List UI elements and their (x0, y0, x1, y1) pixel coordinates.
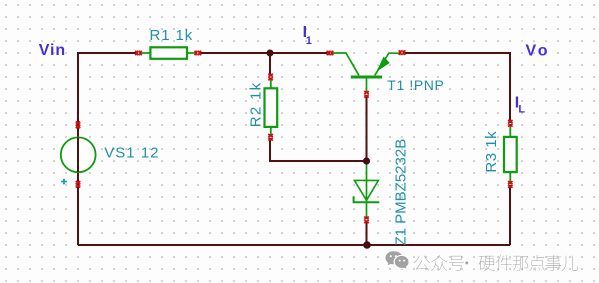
watermark text 公众号·硬件那点事儿 (414, 255, 578, 271)
svg-text:R2 1k: R2 1k (247, 82, 264, 128)
wire: bottom rail (78, 244, 510, 246)
resistor R3 (504, 124, 517, 184)
svg-text:R1 1k: R1 1k (150, 27, 194, 44)
wire: R3 bottom pin down to bottom rail (509, 185, 511, 245)
pin VS1 - (76, 181, 81, 187)
svg-text:Z1 PMBZ5232B: Z1 PMBZ5232B (392, 139, 409, 246)
svg-text:VS1 12: VS1 12 (104, 144, 159, 161)
label I1 current (303, 24, 312, 47)
pin R1.2 (195, 51, 201, 56)
voltage source VS1 (61, 137, 96, 172)
svg-text:1: 1 (306, 35, 312, 47)
wire through VS1 (77, 138, 79, 173)
pin T1 collector (327, 51, 333, 56)
label IL current (515, 95, 526, 116)
zener diode Z1 (354, 161, 380, 219)
pin R3.2 (508, 181, 513, 187)
wire: zener bottom pin down to bottom rail junction (366, 221, 368, 245)
svg-text:Vo: Vo (526, 42, 551, 59)
svg-text:R3 1k: R3 1k (483, 131, 500, 173)
pin R3.1 (508, 120, 513, 126)
wire: transistor right pin to Vo corner, down right rail to R3 (403, 53, 510, 123)
wire: top rail Vin corner to R1 left pin (78, 52, 137, 54)
wire: R2 bottom pin down, corner, right to base node (270, 138, 367, 161)
watermark wechat logo (386, 251, 410, 270)
wire: left rail from Vin corner down to bottom rail (77, 52, 79, 245)
transistor PNP arrow (378, 58, 389, 71)
pin R2.1 (268, 74, 273, 80)
svg-text:L: L (518, 103, 525, 115)
svg-text:T1 !PNP: T1 !PNP (387, 77, 444, 93)
pin VS1 + (76, 122, 81, 128)
pin T1 emitter (399, 50, 405, 55)
VS1 plus sign (61, 179, 67, 185)
resistor R2 (265, 78, 278, 137)
wire: node at R1 output down to R2 top pin (269, 53, 271, 76)
wire: R1 right pin to transistor left pin (through node at x=270) (199, 52, 330, 54)
pin T1 base (364, 91, 369, 97)
pin R1.1 (135, 51, 141, 56)
wire: transistor base pin down to base node (366, 96, 368, 161)
junction node base/R2/zener (363, 157, 370, 164)
transistor T1 (PNP) (331, 53, 400, 93)
pin R2.2 (268, 134, 273, 140)
junction node R1/R2 (267, 50, 274, 57)
pin Z1 anode (364, 217, 369, 223)
resistor R1 (140, 47, 197, 59)
junction node zener/bottom rail (363, 241, 371, 249)
svg-text:Vin: Vin (39, 42, 66, 59)
